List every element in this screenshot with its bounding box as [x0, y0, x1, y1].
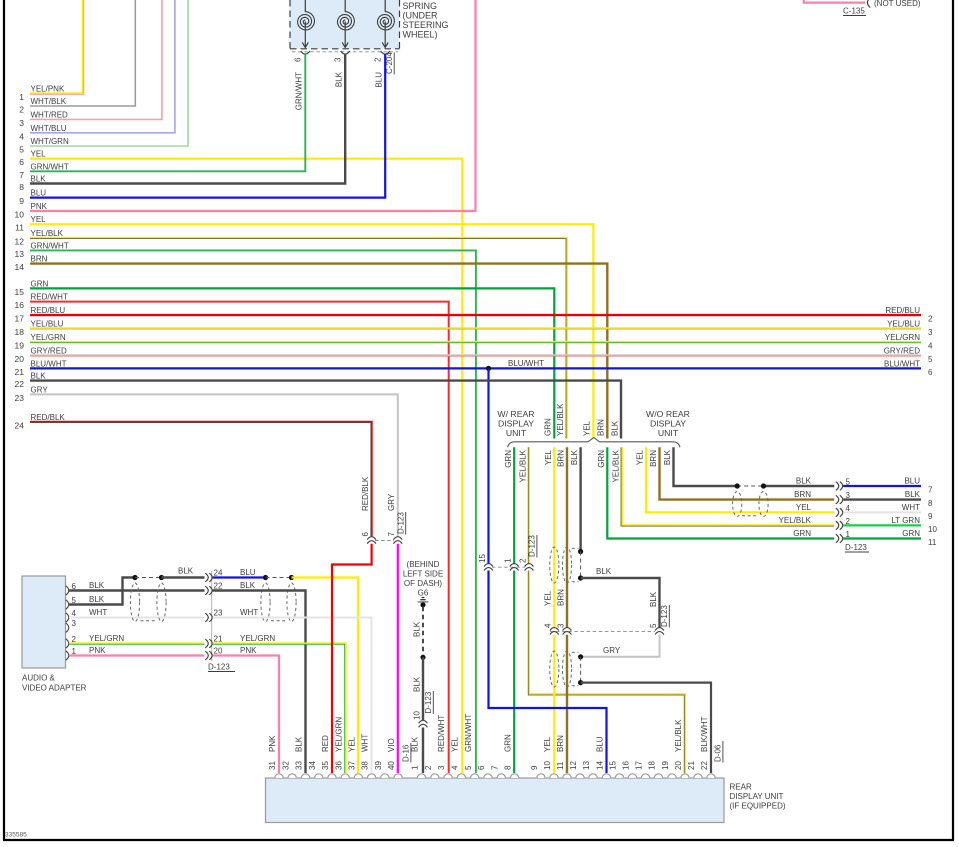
- svg-text:WHT/RED: WHT/RED: [31, 110, 69, 119]
- svg-text:BRN: BRN: [556, 735, 565, 752]
- connector D-123 pin 4: [550, 628, 559, 631]
- svg-text:BLK: BLK: [596, 567, 612, 576]
- svg-text:D-123: D-123: [424, 691, 433, 713]
- wire YEL/GRN adapter pin 2 to D-123 pin 21: [69, 642, 205, 644]
- wire 23 GRY to D-123 pin 7: [30, 394, 398, 536]
- svg-text:YEL/BLU: YEL/BLU: [887, 319, 920, 328]
- svg-text:8: 8: [19, 182, 24, 192]
- rear display pin 12: [576, 774, 584, 778]
- wire GRN w-branch to rear display pin 8: [513, 447, 515, 563]
- svg-text:11: 11: [15, 223, 24, 233]
- svg-text:16: 16: [15, 300, 25, 310]
- svg-text:BLK: BLK: [335, 71, 344, 87]
- svg-text:3: 3: [19, 118, 24, 128]
- svg-text:BRN: BRN: [556, 589, 565, 606]
- wire 6 YEL to rear display pin 4: [30, 159, 462, 773]
- svg-text:RED/WHT: RED/WHT: [437, 715, 446, 752]
- rear display pin 9: [537, 774, 545, 778]
- wire 2 WHT/BLK: [30, 0, 135, 106]
- wire YEL/GRN from D-123 pin 21 to rear display pin 36: [213, 644, 346, 774]
- svg-text:10: 10: [543, 761, 552, 770]
- connector C-204 pin 3 cup: [341, 51, 350, 54]
- clockspring coil 3: [384, 0, 386, 12]
- svg-text:3: 3: [334, 57, 343, 62]
- svg-text:YEL: YEL: [31, 215, 47, 224]
- shield oval B2: [287, 583, 296, 622]
- svg-text:YEL/GRN: YEL/GRN: [240, 634, 275, 643]
- svg-text:31: 31: [268, 761, 277, 770]
- svg-text:10: 10: [928, 525, 937, 534]
- svg-text:W/O REAR: W/O REAR: [646, 409, 690, 419]
- wire GRY from D-123 pin 5 to drain: [583, 635, 660, 657]
- node shield drain dot right: [761, 483, 766, 488]
- connector D-123 pin 21: [205, 639, 208, 648]
- wire BLK to D-123 pin 10: [422, 657, 424, 720]
- svg-text:YEL: YEL: [544, 449, 553, 465]
- rear display pin 6: [484, 774, 492, 778]
- svg-text:BRN: BRN: [597, 419, 606, 436]
- rear display pin 7: [497, 774, 505, 778]
- rear display pin 8: [510, 774, 518, 778]
- shield dashes lower: [572, 651, 579, 653]
- wire 7 GRN/WHT from clockspring: [30, 54, 305, 171]
- svg-text:15: 15: [609, 761, 618, 770]
- svg-text:RED/BLU: RED/BLU: [31, 306, 66, 315]
- svg-text:23: 23: [214, 609, 223, 618]
- rear display pin 20: [681, 774, 689, 778]
- svg-text:5: 5: [464, 765, 473, 770]
- svg-text:BRN: BRN: [31, 255, 48, 264]
- svg-text:15: 15: [478, 554, 487, 563]
- svg-text:DISPLAY: DISPLAY: [498, 419, 534, 429]
- svg-text:D-16: D-16: [402, 744, 411, 762]
- svg-text:GRN/WHT: GRN/WHT: [31, 162, 69, 171]
- svg-text:BLK: BLK: [663, 449, 672, 465]
- svg-text:BLK: BLK: [178, 567, 194, 576]
- wire 24 RED/BLK to D-123 pin 6: [30, 422, 372, 537]
- ground G6 symbol: [422, 597, 425, 599]
- rear display pin 34: [315, 774, 323, 778]
- wire BLK w/o-branch shield drain to D-123 pin 5: [674, 447, 738, 486]
- wire BLU/WHT branch down to D-123 pin 15: [487, 368, 489, 563]
- rear display pin 32: [288, 774, 296, 778]
- svg-text:5: 5: [649, 623, 658, 628]
- svg-text:WHT/BLU: WHT/BLU: [31, 124, 67, 133]
- svg-text:37: 37: [348, 761, 357, 770]
- svg-text:BRN: BRN: [649, 450, 658, 467]
- svg-text:21: 21: [687, 761, 696, 770]
- svg-text:9: 9: [928, 512, 933, 521]
- rear display pin 1: [417, 774, 425, 778]
- svg-text:6: 6: [361, 532, 370, 537]
- svg-text:BLK: BLK: [295, 736, 304, 752]
- node splice dot G6: [420, 655, 425, 660]
- connector C-204 pin 2 cup: [381, 51, 390, 54]
- wire YEL w-branch to rear display pin 10: [553, 447, 555, 627]
- svg-text:9: 9: [19, 196, 24, 206]
- svg-text:D-06: D-06: [714, 744, 723, 762]
- connector D-123 pin 2: [836, 521, 839, 530]
- svg-text:22: 22: [15, 379, 25, 389]
- svg-text:GRN: GRN: [504, 734, 513, 752]
- svg-text:UNIT: UNIT: [658, 428, 679, 438]
- wire 21 BLU/WHT: [30, 367, 921, 369]
- wire BLK from D-123 pin 22 to rear display pin 33: [213, 591, 306, 774]
- svg-text:BRN: BRN: [794, 490, 811, 499]
- wire PNK from D-123 pin 20 to rear display pin 31: [213, 656, 279, 774]
- svg-text:YEL: YEL: [348, 736, 357, 752]
- wire 16 RED/WHT to rear display pin 3: [30, 302, 449, 773]
- svg-text:YEL/GRN: YEL/GRN: [31, 333, 66, 342]
- page border: [3, 0, 5, 840]
- svg-text:YEL: YEL: [451, 736, 460, 752]
- svg-text:STEERING: STEERING: [403, 20, 449, 30]
- svg-text:RED/WHT: RED/WHT: [31, 293, 68, 302]
- svg-text:22: 22: [214, 582, 223, 591]
- svg-text:4: 4: [928, 342, 933, 351]
- svg-text:YEL/BLK: YEL/BLK: [31, 229, 64, 238]
- svg-text:(IF EQUIPPED): (IF EQUIPPED): [730, 802, 786, 811]
- rear display pin 10: [550, 774, 558, 778]
- wire YEL shield to rear display pin 37: [292, 578, 359, 774]
- rear display pin 4: [457, 774, 465, 778]
- wire BLU from D-123 pin 15 to rear display pin 14: [489, 571, 607, 774]
- svg-text:BLK: BLK: [240, 581, 256, 590]
- wire 20 GRY/RED: [30, 354, 921, 356]
- svg-text:11: 11: [928, 538, 937, 547]
- adapter pin 5: [66, 600, 69, 609]
- connector D-123 pins 4/3 dashes: [550, 630, 655, 632]
- svg-text:UNIT: UNIT: [506, 428, 527, 438]
- svg-text:20: 20: [674, 761, 683, 770]
- svg-text:6: 6: [294, 57, 303, 62]
- svg-text:18: 18: [15, 327, 25, 337]
- svg-text:GRY/RED: GRY/RED: [31, 346, 68, 355]
- svg-text:7: 7: [928, 486, 933, 495]
- svg-text:BLK: BLK: [31, 372, 47, 381]
- svg-text:6: 6: [19, 157, 24, 167]
- svg-text:BLU/WHT: BLU/WHT: [508, 359, 544, 368]
- node shield dot B: [159, 575, 164, 580]
- wire BLK to pin 8: [843, 498, 921, 500]
- wire BRN w/o-branch to D-123 pin 3: [660, 447, 835, 499]
- svg-text:15: 15: [15, 287, 25, 297]
- svg-text:BLU: BLU: [596, 736, 605, 752]
- rear display pin 3: [444, 774, 452, 778]
- clockspring arrow 3: [384, 22, 386, 48]
- wire GRN w/o-branch to D-123 pin 1: [607, 447, 834, 538]
- wire 19 YEL/GRN: [30, 341, 921, 343]
- connector D-123 pin 24: [205, 573, 208, 582]
- wire 9 BLU from clockspring: [30, 54, 385, 198]
- wire 14 BRN to splice brace: [30, 264, 607, 439]
- svg-text:LEFT SIDE: LEFT SIDE: [403, 570, 443, 579]
- svg-text:D-123: D-123: [528, 535, 537, 557]
- shield oval B1: [261, 583, 270, 622]
- svg-text:(UNDER: (UNDER: [403, 11, 438, 21]
- svg-text:PNK: PNK: [31, 202, 48, 211]
- svg-text:4: 4: [19, 131, 24, 141]
- svg-text:YEL: YEL: [543, 736, 552, 752]
- svg-text:1: 1: [19, 92, 24, 102]
- svg-text:7: 7: [387, 532, 396, 537]
- wire BLK/WHT to rear display pin 22: [581, 683, 711, 773]
- wire shield dashed A: [135, 577, 162, 579]
- splice brace: [508, 438, 681, 448]
- svg-text:38: 38: [361, 761, 370, 770]
- svg-text:DISPLAY: DISPLAY: [650, 419, 686, 429]
- svg-text:9: 9: [530, 765, 539, 770]
- rear display pin 37: [354, 774, 362, 778]
- svg-text:BLK: BLK: [796, 477, 812, 486]
- shield oval upper BRN: [562, 547, 571, 583]
- svg-text:35: 35: [321, 761, 330, 770]
- svg-text:D-123: D-123: [208, 663, 230, 672]
- shield oval upper YEL: [550, 547, 559, 583]
- connector D-123 pin 1: [836, 534, 839, 543]
- wire YEL/BLK w-branch to rear display pin 20: [528, 447, 530, 563]
- adapter pin 4: [66, 613, 69, 622]
- svg-text:7: 7: [19, 170, 24, 180]
- connector D-123 pin 6: [367, 537, 376, 540]
- shield dashes upper: [572, 547, 579, 549]
- svg-text:3: 3: [437, 765, 446, 770]
- svg-text:RED/BLK: RED/BLK: [361, 476, 370, 511]
- svg-text:BLK: BLK: [610, 420, 619, 436]
- rear display pin 11: [563, 774, 571, 778]
- wire 10 PNK from top: [30, 0, 476, 211]
- wire BLK adapter pin 6 to D-123 pin 22: [69, 589, 205, 591]
- svg-text:GRN: GRN: [544, 418, 553, 436]
- connector D-123 pin 5: [836, 482, 839, 491]
- svg-text:19: 19: [15, 341, 25, 351]
- svg-text:GRN: GRN: [902, 529, 920, 538]
- svg-text:YEL/BLK: YEL/BLK: [519, 449, 528, 482]
- svg-text:BLU: BLU: [31, 189, 47, 198]
- svg-text:RED: RED: [321, 735, 330, 752]
- rear display pin 38: [367, 774, 375, 778]
- wire WHT from D-123 pin 23 to rear display pin 38: [213, 618, 372, 774]
- wire GRN to pin 11: [843, 537, 921, 539]
- node splice on wire 21: [486, 366, 491, 371]
- wire 12 YEL/BLK to splice brace: [30, 238, 567, 439]
- spring (clockspring) box: [290, 0, 400, 49]
- svg-text:YEL: YEL: [544, 590, 553, 606]
- rear display unit box: [266, 778, 725, 823]
- node ground dot: [420, 602, 425, 607]
- svg-text:19: 19: [661, 761, 670, 770]
- svg-text:14: 14: [15, 262, 25, 272]
- shield bottom dashes A: [141, 620, 157, 622]
- svg-text:3: 3: [928, 328, 933, 337]
- svg-text:YEL/BLK: YEL/BLK: [779, 516, 812, 525]
- svg-text:20: 20: [15, 354, 25, 364]
- wire BLK dashed to ground: [422, 607, 424, 656]
- svg-text:8: 8: [504, 765, 513, 770]
- svg-text:17: 17: [635, 761, 644, 770]
- svg-text:YEL/GRN: YEL/GRN: [885, 333, 920, 342]
- svg-text:BLK/WHT: BLK/WHT: [700, 716, 709, 752]
- node drain dot 3: [578, 654, 583, 659]
- clockspring coil 2: [344, 0, 346, 12]
- svg-text:4: 4: [544, 623, 553, 628]
- shield oval lower YEL: [550, 651, 559, 687]
- svg-text:BLK: BLK: [89, 595, 105, 604]
- svg-text:5: 5: [928, 355, 933, 364]
- svg-text:D-123: D-123: [845, 543, 867, 552]
- wire WHT to pin 9: [843, 511, 921, 513]
- svg-text:BLK: BLK: [570, 449, 579, 465]
- svg-text:11: 11: [556, 761, 565, 770]
- svg-text:18: 18: [648, 761, 657, 770]
- rear display pin 21: [694, 774, 702, 778]
- connector D-123 pin 3: [836, 495, 839, 504]
- connector D-123 pins 15/1/2 dashes: [492, 566, 525, 568]
- rear display pin 17: [641, 774, 649, 778]
- connector D-123 pin 5 lower: [655, 628, 664, 631]
- svg-text:GRY: GRY: [31, 385, 49, 394]
- svg-text:PNK: PNK: [240, 646, 257, 655]
- svg-text:BLK: BLK: [31, 175, 47, 184]
- wire BLK adapter pin 5 shield drain: [69, 578, 135, 605]
- svg-text:5: 5: [19, 145, 24, 155]
- svg-text:GRY: GRY: [603, 646, 621, 655]
- rear display pin 35: [328, 774, 336, 778]
- svg-text:8: 8: [928, 499, 933, 508]
- svg-text:17: 17: [15, 314, 25, 324]
- svg-text:DISPLAY UNIT: DISPLAY UNIT: [730, 792, 784, 801]
- wire 8 BLK from clockspring: [30, 54, 345, 184]
- svg-text:PNK: PNK: [268, 735, 277, 752]
- svg-text:3: 3: [556, 623, 565, 628]
- svg-text:WHT: WHT: [902, 503, 920, 512]
- rear display pin 14: [602, 774, 610, 778]
- wire drain dashed 1: [580, 552, 582, 579]
- svg-text:YEL/GRN: YEL/GRN: [334, 717, 343, 752]
- svg-text:BLK: BLK: [89, 581, 105, 590]
- svg-text:39: 39: [374, 761, 383, 770]
- svg-text:YEL: YEL: [636, 449, 645, 465]
- connector C-135 arc: [867, 0, 870, 8]
- wire WHT adapter pin 4 to D-123 pin 23: [69, 617, 205, 619]
- svg-text:6: 6: [477, 765, 486, 770]
- node shield drain dot left: [735, 483, 740, 488]
- audio & video adapter box: [22, 576, 66, 668]
- shield oval lower BRN: [562, 651, 571, 687]
- wire PNK adapter pin 1 to D-123 pin 20: [69, 654, 205, 656]
- svg-text:40: 40: [387, 761, 396, 770]
- clockspring arrow 2: [344, 22, 346, 48]
- svg-text:34: 34: [308, 761, 317, 770]
- connector D-123 pin 7: [393, 537, 402, 540]
- svg-text:10: 10: [412, 711, 421, 720]
- svg-text:GRN/WHT: GRN/WHT: [31, 241, 69, 250]
- wire 5 WHT/GRN: [30, 0, 188, 146]
- svg-text:YEL/BLK: YEL/BLK: [556, 403, 565, 436]
- svg-text:BLK: BLK: [412, 676, 421, 692]
- node drain dot 2: [578, 575, 583, 580]
- svg-text:BLU: BLU: [240, 568, 256, 577]
- wire 13 GRN/WHT to rear display pin 5: [30, 250, 476, 773]
- svg-text:WHT: WHT: [361, 734, 370, 752]
- wire 17 RED/BLU: [30, 314, 921, 316]
- svg-text:RED/BLU: RED/BLU: [885, 306, 920, 315]
- shield bottom dashes B: [271, 620, 287, 622]
- rear display pin 22: [707, 774, 715, 778]
- wire 11 YEL to splice brace: [30, 224, 593, 438]
- svg-text:21: 21: [214, 635, 223, 644]
- connector D-123 pin 20: [205, 651, 208, 660]
- node drain dot 1: [578, 549, 583, 554]
- svg-text:VIO: VIO: [387, 738, 396, 752]
- node shield dot D: [289, 575, 294, 580]
- shield oval left (BRN/YEL pair): [733, 492, 742, 517]
- svg-text:C-135: C-135: [843, 7, 865, 16]
- svg-text:BLU: BLU: [904, 477, 920, 486]
- svg-text:GRN: GRN: [793, 529, 811, 538]
- svg-text:GRN/WHT: GRN/WHT: [295, 72, 304, 110]
- wire drain dashed 2: [580, 657, 582, 683]
- svg-text:YEL/BLU: YEL/BLU: [31, 319, 64, 328]
- rear display pin 40: [394, 774, 402, 778]
- svg-text:21: 21: [15, 367, 25, 377]
- rear display pin 31: [275, 774, 283, 778]
- svg-text:24: 24: [15, 420, 25, 430]
- svg-text:BLK: BLK: [649, 591, 658, 607]
- clockspring coil 1: [304, 0, 306, 12]
- wire BLU from D-123 pin 24: [213, 576, 266, 578]
- wire RED from D-123 pin 6 to rear display pin 35: [332, 544, 372, 773]
- wire shield dashed C: [266, 577, 292, 579]
- svg-text:GRN: GRN: [504, 450, 513, 468]
- shield bottom dashes: [742, 515, 759, 517]
- rear display pin 13: [589, 774, 597, 778]
- wire VIO from D-123 pin 7 to rear display pin 40: [397, 544, 399, 773]
- svg-text:PNK: PNK: [89, 646, 106, 655]
- svg-text:16: 16: [622, 761, 631, 770]
- svg-text:WHT: WHT: [89, 608, 107, 617]
- node drain dot 4: [578, 680, 583, 685]
- svg-text:WHEEL): WHEEL): [403, 30, 438, 40]
- adapter pin 6: [66, 586, 69, 595]
- connector C-204 dashed line: [292, 51, 398, 53]
- node shield dot A: [132, 575, 137, 580]
- svg-text:WHT/GRN: WHT/GRN: [31, 137, 69, 146]
- wire 3 WHT/RED: [30, 0, 162, 119]
- svg-text:LT GRN: LT GRN: [891, 516, 920, 525]
- svg-text:REAR: REAR: [730, 783, 752, 792]
- svg-text:D-123: D-123: [396, 512, 405, 534]
- svg-text:BLK: BLK: [411, 736, 420, 752]
- svg-text:10: 10: [15, 210, 25, 220]
- svg-text:D-123: D-123: [660, 605, 669, 627]
- svg-text:1: 1: [411, 765, 420, 770]
- svg-text:4: 4: [451, 765, 460, 770]
- rear display pin 16: [628, 774, 636, 778]
- svg-text:1: 1: [504, 558, 513, 563]
- wire YEL w/o-branch to D-123 pin 4: [646, 447, 834, 512]
- svg-text:36: 36: [334, 761, 343, 770]
- svg-text:GRN: GRN: [31, 279, 49, 288]
- clockspring arrow 1: [304, 22, 306, 48]
- wire LT GRN to pin 10: [843, 524, 921, 526]
- svg-text:BLK: BLK: [905, 490, 921, 499]
- wire 4 WHT/BLU: [30, 0, 175, 133]
- shield oval right (BRN/YEL pair): [759, 492, 768, 517]
- wire 1 YEL/PNK: [30, 0, 83, 94]
- svg-text:2: 2: [518, 558, 527, 563]
- svg-text:13: 13: [582, 761, 591, 770]
